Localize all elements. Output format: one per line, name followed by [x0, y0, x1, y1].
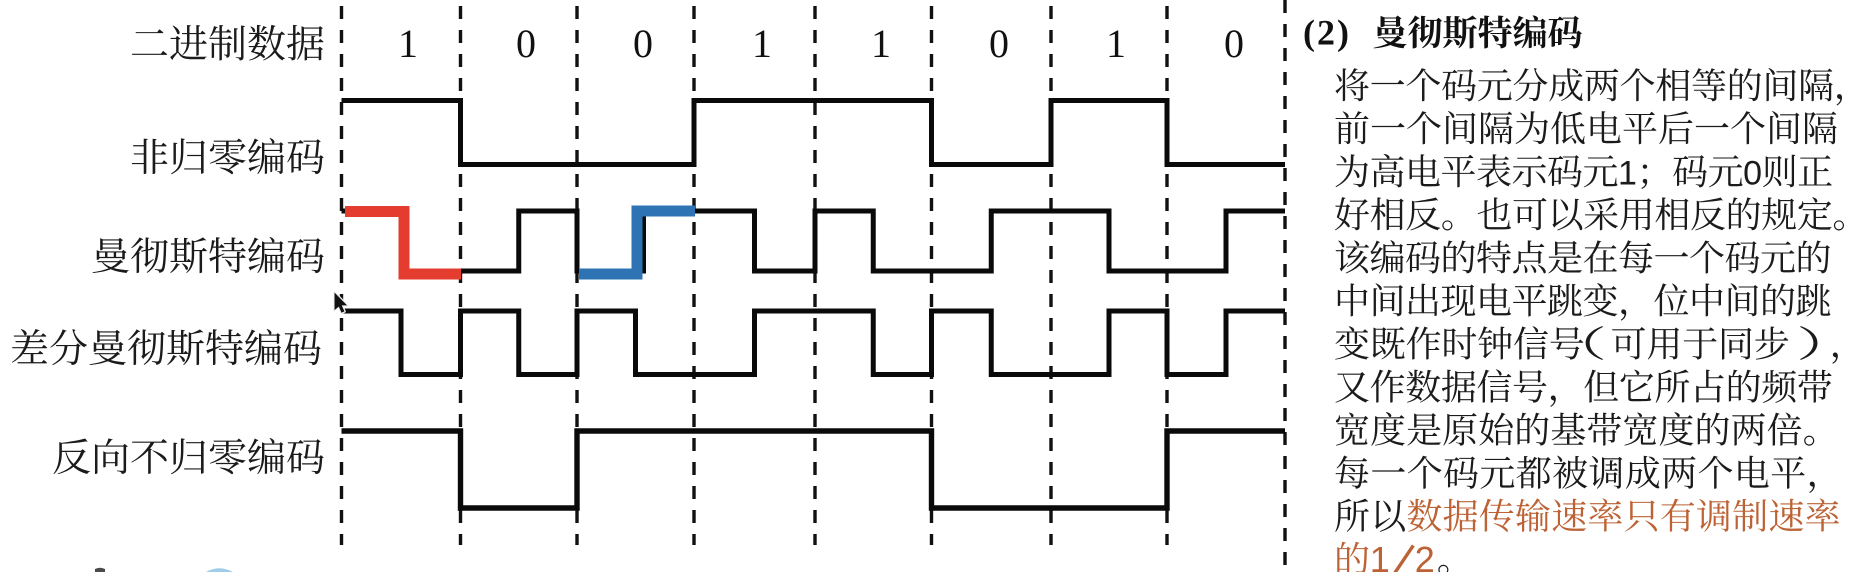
- dashed bit-cell boundary line 5: [813, 6, 816, 545]
- mouse cursor arrow: [335, 293, 348, 313]
- binary data digits row: [398, 21, 1244, 66]
- row label: binary data: [132, 25, 324, 61]
- NRZ waveform (non-return-to-zero): [342, 101, 1286, 165]
- svg-text:1: 1: [1106, 21, 1126, 66]
- dashed bit-cell boundary line 1: [340, 6, 343, 545]
- Manchester encoding waveform: [342, 211, 1286, 271]
- red highlighted Manchester segment (bit 1): [345, 212, 461, 275]
- svg-text:1: 1: [752, 21, 772, 66]
- svg-text:1: 1: [1618, 155, 1637, 193]
- dashed bit-cell boundary line 4: [692, 6, 695, 545]
- svg-text:0: 0: [989, 21, 1009, 66]
- row label: differential Manchester: [12, 329, 321, 365]
- blue highlighted Manchester segment (bit 0): [579, 211, 695, 274]
- svg-text:1: 1: [1370, 539, 1390, 572]
- svg-text:0: 0: [516, 21, 536, 66]
- svg-text:0: 0: [1224, 21, 1244, 66]
- dashed bit-cell boundary line 9: [1283, 0, 1286, 572]
- dashed bit-cell boundary line 6: [930, 6, 933, 545]
- row label: NRZI: [53, 438, 323, 474]
- svg-text:(2): (2): [1303, 13, 1351, 53]
- svg-text:0: 0: [633, 21, 653, 66]
- dashed bit-cell boundary line 3: [575, 6, 578, 545]
- svg-text:1: 1: [398, 21, 418, 66]
- small light-blue artifact bottom-left: [206, 568, 233, 572]
- dashed bit-cell boundary line 8: [1165, 6, 1168, 545]
- row label: Manchester: [93, 237, 324, 273]
- svg-text:0: 0: [1743, 155, 1762, 193]
- small gray artifact bottom-left: [95, 568, 105, 572]
- explanatory paragraph about Manchester encoding: [1335, 68, 1842, 105]
- row label: NRZ: [132, 138, 324, 174]
- dashed bit-cell boundary line 7: [1049, 6, 1052, 545]
- svg-text:2: 2: [1415, 539, 1435, 572]
- svg-text:1: 1: [871, 21, 891, 66]
- differential Manchester encoding waveform: [342, 311, 1286, 375]
- NRZI waveform (inverted non-return-to-zero): [342, 431, 1286, 508]
- dashed bit-cell boundary line 2: [459, 6, 462, 545]
